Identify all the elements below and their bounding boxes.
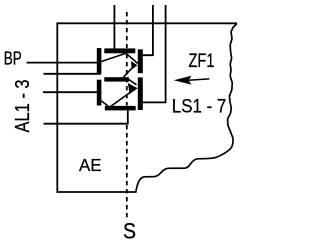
- contact arm middle to lower arrow: [129, 80, 137, 85]
- arrowhead upper contact: [131, 61, 138, 70]
- wire 3: [43, 91, 98, 93]
- wire 2: [44, 73, 102, 75]
- connector pin bar lower-right: [138, 77, 143, 110]
- wire: top bus to ZF1: [57, 22, 237, 24]
- contact arm to upper arrow: [124, 68, 133, 77]
- svg-text:S: S: [123, 219, 136, 244]
- connector X1 top bar: [104, 48, 135, 53]
- wire: vertical into connector top: [113, 5, 115, 49]
- wire stub connector to AL wire: [127, 110, 129, 125]
- contact blade upper left: [101, 53, 126, 61]
- connector pin bar lower-left: [97, 80, 102, 106]
- svg-text:AE: AE: [79, 155, 102, 175]
- svg-text:BP: BP: [4, 49, 22, 69]
- wire: vertical v2 top right: [143, 5, 167, 102]
- wire: vertical v1 top right: [143, 5, 154, 55]
- node S: dashed separation line: [126, 12, 128, 219]
- contact blade upper right: [126, 53, 138, 63]
- wire: left vertical (AE box left edge): [56, 22, 58, 192]
- connector X1 bottom bar: [105, 106, 136, 111]
- contact blade lower long: [110, 93, 130, 108]
- svg-text:ZF1: ZF1: [189, 51, 215, 72]
- contact blade lower left: [101, 101, 109, 107]
- connector pin bar upper-right: [138, 49, 143, 73]
- connector X1 middle bar: [104, 77, 129, 81]
- wire AL1-3 to connector: [44, 123, 129, 125]
- arrowhead lower contact: [128, 83, 138, 94]
- wire BP: [27, 62, 98, 64]
- connector pin bar upper-left: [97, 48, 102, 73]
- arrow pointing to connector (ZF1): [174, 76, 192, 85]
- svg-text:AL1 - 3: AL1 - 3: [12, 80, 34, 133]
- svg-text:LS1 - 7: LS1 - 7: [172, 95, 227, 117]
- torn edge border: [136, 23, 237, 191]
- node AE box bottom: [56, 191, 136, 193]
